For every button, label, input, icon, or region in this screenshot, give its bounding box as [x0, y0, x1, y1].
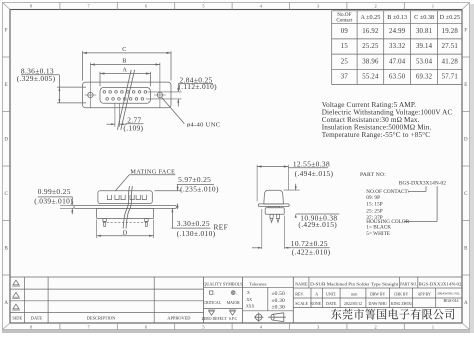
svg-text:NONE: NONE — [310, 301, 322, 306]
dim B — [89, 63, 91, 108]
revision triangles — [13, 280, 19, 285]
svg-text:REV.: REV. — [295, 291, 303, 296]
dim 10.90 — [295, 184, 297, 190]
svg-text:5: 5 — [202, 4, 204, 9]
datum target symbol — [256, 314, 262, 320]
svg-text:41.28: 41.28 — [442, 58, 459, 65]
svg-text:5: 5 — [202, 325, 204, 330]
svg-text:25: 25P: 25: 25P — [366, 208, 382, 214]
svg-text:PART NO.: PART NO. — [400, 283, 417, 287]
side view: contacts — [107, 195, 111, 200]
front view: D-sub insert — [100, 88, 150, 104]
svg-text:±0.30: ±0.30 — [272, 305, 285, 311]
svg-text:MAJOR: MAJOR — [227, 301, 240, 305]
side view: shell — [98, 191, 152, 204]
svg-text:15: 15 — [341, 43, 349, 50]
svg-text:2: 2 — [375, 4, 377, 9]
svg-text:25: 25 — [341, 58, 349, 65]
svg-text:(.329±.005): (.329±.005) — [17, 74, 56, 83]
side view: pins — [103, 219, 106, 222]
svg-text:DATE: DATE — [31, 315, 43, 320]
svg-text:ZERO DEFECT: ZERO DEFECT — [202, 317, 228, 321]
svg-text:09: 09 — [341, 28, 349, 35]
front view: connector flange — [83, 82, 172, 108]
svg-text:S.P.C: S.P.C — [229, 317, 238, 321]
front view: contact pins row2 — [106, 98, 109, 101]
side view: body — [97, 208, 154, 218]
svg-text:CRITICAL: CRITICAL — [203, 301, 221, 305]
svg-text:PART NO:: PART NO: — [360, 172, 386, 178]
svg-text:09: 9P: 09: 9P — [366, 195, 380, 201]
dim 2.77 — [114, 104, 116, 127]
svg-text:A: A — [122, 67, 127, 74]
svg-text:BGS-DXX3X14N-02: BGS-DXX3X14N-02 — [419, 283, 462, 287]
svg-text:(.494±.015): (.494±.015) — [295, 169, 334, 178]
svg-text:0.99±0.25: 0.99±0.25 — [38, 187, 71, 196]
svg-text:KING ZHOU: KING ZHOU — [391, 302, 413, 306]
dim C — [82, 51, 84, 80]
svg-text:1= BLACK: 1= BLACK — [366, 224, 391, 230]
svg-text:±0.50: ±0.50 — [272, 291, 285, 297]
dim 3.30 REF — [171, 209, 173, 229]
svg-text:REF: REF — [214, 223, 229, 232]
page shadow bottom — [2, 330, 474, 333]
dim 10.72 — [261, 209, 263, 249]
svg-text:47.04: 47.04 — [389, 58, 406, 65]
svg-text:D: D — [4, 137, 8, 142]
third angle projection symbol — [271, 314, 274, 320]
svg-text:D: D — [123, 230, 128, 237]
svg-text:QUALITY SYMBOLS: QUALITY SYMBOLS — [203, 281, 243, 286]
front view: contact pins row1 — [103, 91, 106, 94]
svg-text:NAME:: NAME: — [295, 282, 308, 287]
side view: flange — [74, 205, 176, 208]
end view: pins — [270, 214, 273, 218]
side view: hidden line — [103, 221, 149, 223]
svg-text:Contact: Contact — [336, 18, 353, 24]
svg-text:(.039±.010): (.039±.010) — [34, 196, 73, 205]
svg-text:19.28: 19.28 — [442, 28, 459, 35]
end view: flange — [258, 204, 289, 207]
svg-text:63.50: 63.50 — [389, 74, 406, 81]
svg-text:12.55±0.38: 12.55±0.38 — [293, 159, 330, 168]
svg-text:53.04: 53.04 — [416, 58, 433, 65]
svg-text:2: 2 — [375, 325, 377, 330]
svg-text:D ±0.25: D ±0.25 — [440, 14, 460, 21]
tolerance box — [243, 286, 294, 288]
svg-text:Temperature Range:-55°C to +85: Temperature Range:-55°C to +85°C — [322, 131, 431, 139]
svg-text:A ±0.25: A ±0.25 — [360, 14, 380, 21]
border zone ticks and labels — [59, 3, 61, 10]
revision table — [10, 276, 204, 278]
svg-text:8: 8 — [30, 4, 32, 9]
end view: body — [265, 208, 284, 215]
svg-text:Tolerance: Tolerance — [249, 281, 266, 286]
svg-text:(.235±.010): (.235±.010) — [180, 184, 219, 193]
svg-text:B ±0.13: B ±0.13 — [387, 14, 407, 21]
svg-text:B: B — [122, 58, 126, 65]
svg-text:ø4-40 UNC: ø4-40 UNC — [187, 121, 221, 128]
svg-text:57.71: 57.71 — [442, 74, 458, 81]
svg-text:.XX: .XX — [246, 298, 253, 302]
svg-text:F: F — [464, 28, 467, 33]
svg-text:(.422±.010): (.422±.010) — [292, 248, 331, 257]
svg-text:8: 8 — [30, 325, 32, 330]
company name (CJK vector) — [331, 309, 454, 320]
side view: break lines — [123, 186, 129, 229]
end view: tab — [269, 206, 280, 207]
front view: break lines — [117, 70, 131, 130]
svg-text:10.72±0.25: 10.72±0.25 — [291, 239, 328, 248]
svg-text:15: 15P: 15: 15P — [366, 202, 382, 208]
svg-text:3: 3 — [317, 4, 319, 9]
svg-text:mm: mm — [351, 291, 358, 296]
quality symbols box — [204, 287, 243, 289]
svg-text:D: D — [464, 137, 468, 142]
svg-text:(.130±.010): (.130±.010) — [177, 229, 216, 238]
end view: shell — [264, 190, 284, 204]
svg-text:SCALE: SCALE — [295, 301, 308, 306]
svg-text:A: A — [315, 291, 318, 296]
svg-text:37: 37 — [341, 74, 349, 81]
svg-text:E: E — [5, 83, 8, 88]
svg-text:CHK BY: CHK BY — [394, 292, 409, 296]
svg-text:F: F — [5, 28, 8, 33]
svg-text:55.24: 55.24 — [362, 74, 379, 81]
svg-text:DRAWING NO.: DRAWING NO. — [437, 291, 460, 295]
page shadow right — [470, 4, 474, 333]
svg-text:3.30±0.25: 3.30±0.25 — [177, 219, 210, 228]
svg-text:.XXX: .XXX — [245, 305, 255, 309]
name / part no rows — [293, 287, 462, 289]
svg-text:DATE.: DATE. — [326, 301, 337, 306]
svg-text:A: A — [4, 301, 8, 306]
svg-text:UNIT.: UNIT. — [326, 291, 336, 296]
svg-text:APP BY: APP BY — [418, 292, 432, 296]
dim 12.55 — [256, 165, 258, 202]
svg-text:DESCRIPTION: DESCRIPTION — [87, 315, 116, 320]
svg-text:APPROVED: APPROVED — [167, 315, 190, 320]
svg-text:33.32: 33.32 — [389, 43, 406, 50]
svg-text:DAW NHU: DAW NHU — [369, 302, 388, 306]
svg-text:DRW BY: DRW BY — [370, 292, 385, 296]
svg-text:3: 3 — [317, 325, 319, 330]
leader 4-40 UNC — [162, 98, 185, 124]
svg-text::: : — [214, 291, 215, 296]
svg-text::: : — [236, 291, 237, 296]
svg-text:1: 1 — [432, 325, 434, 330]
svg-text:38.96: 38.96 — [362, 58, 379, 65]
dim D — [96, 220, 98, 239]
svg-text:.X: .X — [246, 291, 250, 295]
svg-text:MATING FACE: MATING FACE — [130, 168, 175, 175]
svg-text:(.429±.015): (.429±.015) — [298, 220, 337, 229]
svg-text:D-SUB Machined Pin Solder Type: D-SUB Machined Pin Solder Type Straight — [310, 283, 398, 287]
front view: left mounting hole — [88, 92, 93, 97]
svg-text:39.14: 39.14 — [416, 43, 433, 50]
svg-text:25.25: 25.25 — [362, 43, 379, 50]
svg-text:(.109): (.109) — [123, 124, 143, 133]
svg-text:69.32: 69.32 — [416, 74, 433, 81]
svg-text:5= WHITE: 5= WHITE — [366, 231, 390, 237]
svg-text:16.92: 16.92 — [362, 28, 379, 35]
svg-text:2022/05/12: 2022/05/12 — [344, 301, 362, 306]
svg-text:5.97±0.25: 5.97±0.25 — [178, 175, 211, 184]
dim A — [99, 72, 101, 87]
front view: right mounting hole — [157, 92, 162, 97]
svg-text:SIDE: SIDE — [12, 315, 22, 320]
leader lines part number — [425, 186, 427, 191]
svg-text:C: C — [122, 46, 126, 53]
title block frame — [204, 276, 463, 278]
svg-text:A: A — [464, 301, 468, 306]
svg-text:BGS-DXX3X14N-02: BGS-DXX3X14N-02 — [399, 181, 446, 187]
svg-text:E: E — [464, 83, 467, 88]
svg-text:27.51: 27.51 — [442, 43, 458, 50]
svg-text:30.81: 30.81 — [416, 28, 432, 35]
corner diagonals — [3, 3, 11, 10]
svg-text:C ±0.38: C ±0.38 — [414, 14, 434, 21]
svg-text:24.99: 24.99 — [389, 28, 406, 35]
svg-text:1: 1 — [432, 4, 434, 9]
svg-text:±0.30: ±0.30 — [272, 298, 285, 304]
svg-text:BGS-014: BGS-014 — [443, 298, 458, 303]
dimension table — [332, 10, 462, 12]
